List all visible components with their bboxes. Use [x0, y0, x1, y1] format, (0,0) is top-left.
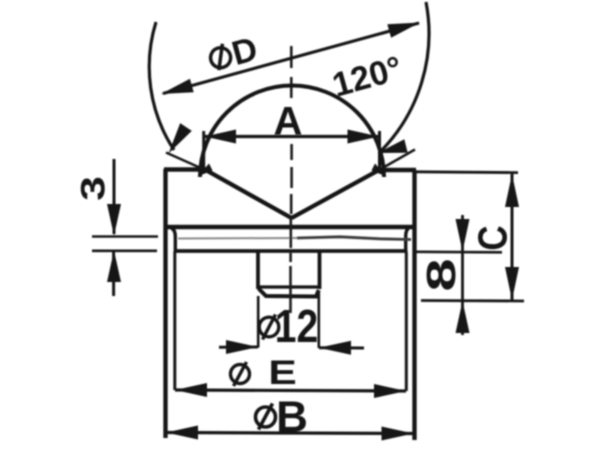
arrowhead D left	[161, 79, 194, 94]
bore shoulder line	[258, 285, 320, 288]
dimension 3 line lower	[112, 252, 115, 296]
label phi B	[256, 393, 308, 442]
arrowhead E left	[175, 383, 207, 397]
left slope extension line	[166, 153, 204, 170]
arrowhead 3 bottom (pointing up)	[107, 251, 121, 283]
svg-text:E: E	[268, 354, 296, 392]
block bottom line	[164, 225, 416, 229]
svg-text:12: 12	[275, 301, 318, 353]
sphere crown arc	[200, 86, 384, 178]
top face left	[164, 167, 205, 171]
body outline: right vertical edge	[412, 170, 416, 440]
svg-text:8: 8	[418, 258, 464, 291]
crown end blob left	[198, 164, 213, 177]
label 8	[418, 258, 464, 291]
C/8 bottom extension line	[421, 299, 524, 302]
arrowhead A left	[205, 130, 237, 144]
groove right rounded corner	[406, 228, 410, 252]
dimension C line	[511, 174, 514, 300]
arrowhead C bottom (pointing down)	[505, 267, 519, 300]
label phi-D	[206, 30, 262, 79]
bore extension line right	[317, 291, 320, 348]
top face right	[378, 168, 416, 172]
E extension line left	[173, 252, 176, 391]
arrowhead phi12 right (pointing left)	[319, 341, 351, 355]
right slope extension line	[379, 150, 415, 171]
svg-text:3: 3	[74, 176, 112, 201]
center line	[291, 46, 292, 313]
svg-text:A: A	[274, 100, 303, 144]
arrowhead 8 bottom (pointing up)	[456, 301, 470, 333]
svg-text:C: C	[471, 225, 516, 250]
body outline: left vertical edge	[163, 169, 167, 438]
label C	[471, 225, 516, 250]
extension line 3 lower	[92, 250, 157, 253]
dimension 8 line	[461, 215, 464, 335]
groove left rounded corner	[171, 228, 176, 252]
dimension A extension right	[378, 131, 381, 169]
dimension A extension left	[202, 131, 205, 168]
groove bottom silhouette faint left	[178, 237, 297, 240]
svg-text:B: B	[276, 393, 308, 442]
V-groove right slope	[292, 170, 380, 218]
arrowhead at right arc end	[378, 139, 408, 153]
C top extension line	[416, 170, 518, 174]
dimension phi12 line left tail	[219, 346, 258, 349]
diameter D dimension line (slanted)	[163, 23, 419, 94]
bore extension line left	[257, 296, 260, 348]
groove bottom silhouette right	[297, 237, 411, 240]
arrowhead E right	[374, 384, 406, 398]
label 120 degrees	[328, 49, 406, 104]
label phi12	[259, 301, 318, 353]
V-groove left slope	[204, 169, 292, 218]
dimension phi E line	[175, 390, 406, 391]
arrowhead 3 top (pointing down)	[107, 204, 121, 236]
arrowhead phi12 left (pointing right)	[226, 340, 258, 354]
crown end blob right	[372, 164, 387, 177]
E extension line right	[405, 252, 408, 392]
bore right wall	[318, 251, 322, 289]
arrowhead B right	[382, 427, 414, 441]
arrowhead B left	[166, 426, 198, 440]
right dimension side arc	[380, 2, 429, 152]
arrowhead C top (pointing up)	[505, 174, 519, 207]
arrowhead 8 top (pointing down)	[456, 219, 470, 252]
band bottom line	[174, 249, 408, 253]
arrowhead D right	[387, 23, 420, 38]
bore bottom chamfer	[259, 289, 319, 297]
extension line 3 upper	[92, 235, 158, 238]
bore left wall	[256, 251, 260, 289]
dimension phi12 line right tail	[319, 346, 364, 349]
arrowhead at left arc end	[169, 123, 192, 153]
dimension phi B line	[166, 433, 414, 434]
left dimension side arc	[149, 22, 174, 150]
8 top extension line	[415, 251, 502, 254]
label phi E	[231, 354, 297, 392]
dimension 3 line upper	[113, 159, 116, 234]
label 3	[74, 176, 112, 201]
arrowhead A right	[348, 130, 380, 144]
dimension A line	[204, 135, 380, 138]
